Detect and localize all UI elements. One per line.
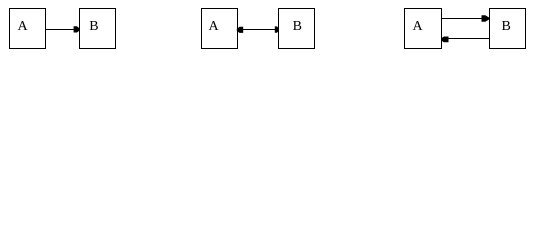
diagram 2 label B <box>293 19 302 34</box>
svg-text:A: A <box>18 19 29 34</box>
diagram 1 box B <box>80 9 116 49</box>
diagram 2 box A <box>202 9 238 49</box>
diagram 3 bottom arrow B to A <box>441 37 489 43</box>
diagram 1 label A <box>18 19 29 34</box>
diagram 3 box B <box>490 9 526 49</box>
diagram 3 label B <box>502 19 511 34</box>
diagram 1 label B <box>89 19 98 34</box>
diagram 3 box A <box>405 9 442 49</box>
diagram 1 box A <box>10 9 46 49</box>
svg-text:A: A <box>413 19 424 34</box>
diagram 2 label A <box>209 19 220 34</box>
svg-text:A: A <box>209 19 220 34</box>
svg-text:B: B <box>89 19 98 34</box>
svg-text:B: B <box>293 19 302 34</box>
diagram 3 label A <box>413 19 424 34</box>
diagram 2 double arrow A to B <box>237 26 279 33</box>
diagram 3 top arrow A to B <box>442 15 489 21</box>
svg-text:B: B <box>502 19 511 34</box>
diagram 2 box B <box>279 9 315 49</box>
diagram 1 arrow A to B <box>46 26 80 32</box>
